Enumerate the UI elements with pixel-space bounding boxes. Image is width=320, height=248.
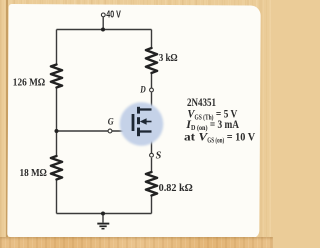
svg-text:2N4351: 2N4351 [187,97,216,109]
svg-text:40 V: 40 V [106,10,121,21]
svg-text:D: D [139,84,145,95]
svg-text:3 kΩ: 3 kΩ [159,53,178,64]
svg-text:18 MΩ: 18 MΩ [20,168,47,179]
svg-text:S: S [156,151,162,162]
svg-text:G: G [108,117,114,127]
svg-text:ID (on) = 3 mA: ID (on) = 3 mA [185,119,239,132]
svg-text:at VGS (on) = 10 V: at VGS (on) = 10 V [184,131,256,144]
svg-text:0.82 kΩ: 0.82 kΩ [159,183,193,194]
svg-text:126 MΩ: 126 MΩ [13,77,45,88]
